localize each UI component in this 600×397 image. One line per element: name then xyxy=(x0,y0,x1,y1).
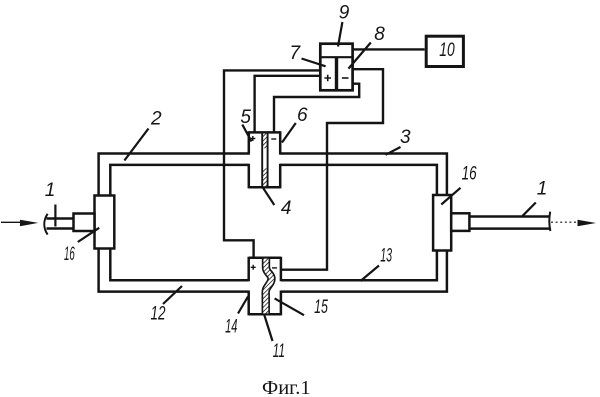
svg-text:Фиг.1: Фиг.1 xyxy=(262,377,311,397)
svg-text:6: 6 xyxy=(297,105,308,126)
svg-text:1: 1 xyxy=(45,180,56,201)
svg-text:7: 7 xyxy=(290,43,302,64)
svg-text:9: 9 xyxy=(339,3,350,24)
svg-text:8: 8 xyxy=(374,24,385,45)
svg-text:15: 15 xyxy=(314,297,328,318)
svg-text:3: 3 xyxy=(400,127,411,148)
svg-text:2: 2 xyxy=(150,109,162,130)
svg-text:16: 16 xyxy=(64,244,75,265)
svg-text:4: 4 xyxy=(281,198,292,219)
svg-text:13: 13 xyxy=(380,246,392,267)
svg-text:14: 14 xyxy=(225,317,237,338)
svg-text:16: 16 xyxy=(462,164,477,185)
svg-text:1: 1 xyxy=(537,178,548,199)
svg-text:5: 5 xyxy=(240,107,251,128)
svg-text:10: 10 xyxy=(439,40,455,61)
svg-text:12: 12 xyxy=(151,303,166,324)
svg-text:11: 11 xyxy=(273,341,285,362)
